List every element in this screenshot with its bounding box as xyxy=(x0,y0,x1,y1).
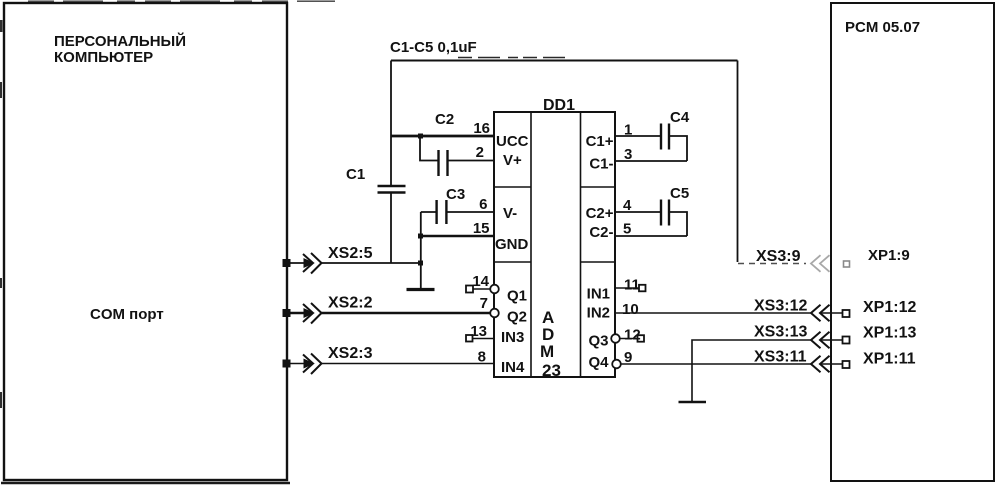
capacitor C3 + pin 6 (V-) xyxy=(421,186,517,224)
pin 10 (IN2) + wire to XS3:12 xyxy=(587,301,842,322)
wire left rail upper (to C1 top plate) xyxy=(390,61,392,186)
svg-text:Q2: Q2 xyxy=(507,309,527,326)
IC DD1 body xyxy=(494,112,615,377)
svg-text:10: 10 xyxy=(622,301,639,318)
svg-text:IN4: IN4 xyxy=(501,359,525,376)
svg-text:13: 13 xyxy=(470,323,487,340)
wire scan artifact bottom border xyxy=(1,482,290,485)
terminal XS2:2 + wire xyxy=(283,295,490,324)
ground (right) xyxy=(679,401,707,404)
pin 11 (IN1) xyxy=(587,277,646,303)
svg-text:11: 11 xyxy=(624,277,640,294)
svg-text:PCM 05.07: PCM 05.07 xyxy=(845,19,920,36)
IC DD1 type label ADM23 xyxy=(540,308,561,380)
ground (left) xyxy=(407,288,435,291)
svg-text:XS2:2: XS2:2 xyxy=(328,295,373,312)
wire top power rail xyxy=(391,60,738,62)
svg-text:XP1:9: XP1:9 xyxy=(868,247,910,264)
pin 15 (GND) xyxy=(421,220,529,253)
svg-text:M: M xyxy=(540,342,554,361)
pin 14 (Q1) xyxy=(466,273,527,305)
svg-text:IN1: IN1 xyxy=(587,286,610,303)
svg-text:XS3:9: XS3:9 xyxy=(756,248,801,265)
svg-text:3: 3 xyxy=(624,146,632,163)
node junction GND/XS2:5 net xyxy=(418,261,423,266)
svg-text:15: 15 xyxy=(473,220,490,237)
node junction C2/pin16 net xyxy=(418,134,423,139)
svg-text:C1-C5 0,1uF: C1-C5 0,1uF xyxy=(390,39,477,56)
pin 12 (Q3) xyxy=(588,327,644,350)
pin 13 (IN3) xyxy=(466,323,524,346)
svg-text:XS3:12: XS3:12 xyxy=(754,298,807,315)
svg-text:XS3:11: XS3:11 xyxy=(754,349,807,366)
svg-text:C3: C3 xyxy=(446,186,465,203)
svg-text:23: 23 xyxy=(542,361,561,380)
svg-text:14: 14 xyxy=(472,273,489,290)
svg-text:C4: C4 xyxy=(670,109,690,126)
svg-text:C2+: C2+ xyxy=(586,205,614,222)
pin 4 (C2+) + capacitor C5 xyxy=(586,185,690,236)
svg-text:12: 12 xyxy=(624,327,641,344)
svg-text:C5: C5 xyxy=(670,185,689,202)
svg-text:IN3: IN3 xyxy=(501,329,524,346)
svg-text:Q4: Q4 xyxy=(588,354,609,371)
svg-text:5: 5 xyxy=(623,221,631,238)
wire scan dashes on top border xyxy=(28,0,335,2)
svg-text:9: 9 xyxy=(624,349,632,366)
pin 9 (Q4) + wire to XS3:11 xyxy=(588,349,842,371)
terminal XS3:11 xyxy=(754,349,916,373)
wire right rail (to XS3:9) xyxy=(737,61,739,263)
svg-text:Q1: Q1 xyxy=(507,288,527,305)
PC box (left block) xyxy=(4,3,287,480)
svg-text:C2: C2 xyxy=(435,111,454,128)
terminal XS3:13 xyxy=(754,324,916,349)
svg-text:16: 16 xyxy=(473,120,490,137)
svg-text:1: 1 xyxy=(624,122,632,139)
svg-text:GND: GND xyxy=(495,236,529,253)
label ПЕРСОНАЛЬНЫЙ КОМПЬЮТЕР xyxy=(54,32,186,66)
pin 5 (C2-) xyxy=(589,221,687,242)
svg-text:XP1:13: XP1:13 xyxy=(863,325,916,342)
svg-text:Q3: Q3 xyxy=(588,333,608,350)
svg-text:6: 6 xyxy=(479,196,487,213)
svg-text:IN2: IN2 xyxy=(587,305,610,322)
svg-text:XS2:5: XS2:5 xyxy=(328,245,373,262)
svg-text:C1+: C1+ xyxy=(586,133,614,150)
wire scan artifact above rail xyxy=(458,57,567,59)
pin 1 (C1+) + capacitor C4 xyxy=(586,109,690,161)
svg-text:C1-: C1- xyxy=(589,156,613,173)
pin 8 (IN4) xyxy=(478,349,525,377)
svg-text:V+: V+ xyxy=(503,152,522,169)
svg-text:C2-: C2- xyxy=(589,224,613,241)
pin 16 (UCC) xyxy=(391,120,529,150)
wire XS3:13 to ground xyxy=(692,340,842,401)
svg-text:XP1:11: XP1:11 xyxy=(863,351,916,368)
wire scan ticks on left border xyxy=(0,20,3,408)
svg-text:COM порт: COM порт xyxy=(90,306,164,323)
svg-text:C1: C1 xyxy=(346,166,365,183)
PCM 05.07 box (right block) xyxy=(831,3,994,481)
wire left rail lower (C1 bottom to XS2:5 net) xyxy=(390,193,392,264)
node XS3:9 (faint) xyxy=(738,247,910,272)
svg-text:КОМПЬЮТЕР: КОМПЬЮТЕР xyxy=(54,49,153,66)
wire GND vertical branch xyxy=(420,212,422,288)
svg-text:4: 4 xyxy=(623,197,632,214)
pin 3 (C1-) xyxy=(589,146,687,173)
svg-text:2: 2 xyxy=(476,144,484,161)
svg-text:DD1: DD1 xyxy=(543,97,575,114)
terminal XS3:12 xyxy=(754,298,916,322)
svg-text:XS3:13: XS3:13 xyxy=(754,324,807,341)
svg-text:V-: V- xyxy=(503,205,517,222)
terminal XS2:3 + wire xyxy=(283,345,494,374)
pin 7 (Q2) xyxy=(480,295,527,326)
capacitor C2 + pin 2 (V+) xyxy=(420,111,522,176)
svg-text:XS2:3: XS2:3 xyxy=(328,345,373,362)
svg-text:XP1:12: XP1:12 xyxy=(863,299,916,316)
terminal XS2:5 + wire xyxy=(283,245,421,274)
svg-text:UCC: UCC xyxy=(496,133,529,150)
capacitor C1 xyxy=(346,166,406,193)
svg-text:ПЕРСОНАЛЬНЫЙ: ПЕРСОНАЛЬНЫЙ xyxy=(54,32,186,50)
svg-text:7: 7 xyxy=(480,295,488,312)
node junction GND/pin15 net xyxy=(418,234,423,239)
